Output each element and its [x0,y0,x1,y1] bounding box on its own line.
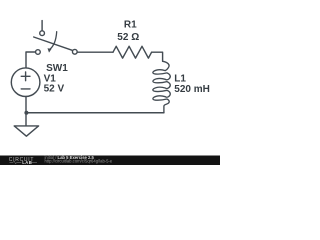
wire from common terminal to resistor [77,51,113,53]
voltage source V1 [11,68,40,97]
svg-text:L1: L1 [174,73,186,84]
svg-text:LAB: LAB [22,160,32,165]
wire from terminal B to source top [26,52,36,68]
switch SW1 terminal A [40,31,45,36]
switch SW1 actuation arrow [50,32,57,50]
ground [14,126,38,136]
V1 minus sign [21,88,30,90]
wire from source bottom to junction [25,97,27,126]
wire stub above switch terminal A [41,21,43,31]
svg-text:520 mH: 520 mH [174,84,210,95]
switch SW1 blade [34,37,73,50]
switch SW1 common terminal [72,49,77,54]
node junction dot [24,111,28,115]
watermark logo squiggle [10,161,38,164]
svg-text:52 Ω: 52 Ω [117,32,139,43]
wire from resistor to inductor corner [152,52,163,61]
switch SW1 terminal B [36,50,41,55]
bottom rail wire [26,112,164,114]
svg-text:http://circuitlab.com/c/5qr64g: http://circuitlab.com/c/5qr64g/lab-5-e [45,159,113,164]
labels [44,19,210,95]
svg-text:52 V: 52 V [44,83,65,94]
inductor L1 [153,61,170,112]
watermark bar [0,156,220,166]
V1 plus sign [21,72,30,81]
svg-text:SW1: SW1 [46,63,68,74]
resistor R1 [113,46,152,58]
svg-text:R1: R1 [124,19,137,30]
